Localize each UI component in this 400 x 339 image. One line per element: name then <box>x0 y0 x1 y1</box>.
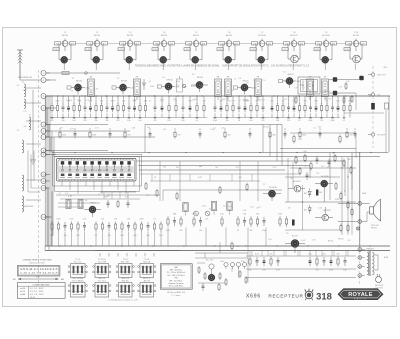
svg-text:330: 330 <box>246 83 249 85</box>
svg-text:BF234: BF234 <box>264 126 269 128</box>
svg-text:470: 470 <box>69 100 72 102</box>
svg-text:150: 150 <box>168 89 171 91</box>
svg-text:330: 330 <box>258 99 261 101</box>
svg-text:47: 47 <box>59 193 61 195</box>
svg-text:100: 100 <box>215 167 218 169</box>
svg-text:33: 33 <box>327 167 329 169</box>
svg-text:0,1: 0,1 <box>213 128 216 130</box>
svg-text:150: 150 <box>163 129 166 131</box>
svg-text:100: 100 <box>253 80 256 82</box>
svg-text:33: 33 <box>71 91 73 93</box>
svg-text:150: 150 <box>147 127 150 129</box>
svg-text:0,047: 0,047 <box>222 99 227 101</box>
svg-text:470: 470 <box>284 99 287 101</box>
svg-text:100: 100 <box>324 91 327 93</box>
svg-text:0,047: 0,047 <box>182 86 187 88</box>
svg-text:0,1: 0,1 <box>258 206 261 208</box>
svg-text:BF234: BF234 <box>338 238 343 240</box>
svg-text:47: 47 <box>239 100 241 102</box>
svg-text:330: 330 <box>199 166 202 168</box>
svg-text:150: 150 <box>223 206 226 208</box>
svg-text:150: 150 <box>288 207 291 209</box>
svg-text:330: 330 <box>104 196 107 198</box>
svg-text:BF234: BF234 <box>191 86 196 88</box>
svg-text:330: 330 <box>163 167 166 169</box>
svg-text:150: 150 <box>347 240 350 242</box>
svg-text:47: 47 <box>303 88 305 90</box>
svg-text:0,047: 0,047 <box>72 87 77 89</box>
svg-text:330: 330 <box>318 126 321 128</box>
svg-text:0,1: 0,1 <box>225 88 228 90</box>
svg-text:47: 47 <box>98 194 100 196</box>
svg-text:47: 47 <box>234 78 236 80</box>
svg-text:0,1: 0,1 <box>313 128 316 130</box>
svg-text:100: 100 <box>146 195 149 197</box>
svg-text:0,047: 0,047 <box>301 240 306 242</box>
svg-text:0,1: 0,1 <box>154 195 157 197</box>
svg-text:BF234: BF234 <box>328 240 333 242</box>
svg-text:47: 47 <box>149 100 151 102</box>
svg-text:0,1: 0,1 <box>126 88 129 90</box>
svg-text:0,047: 0,047 <box>202 206 207 208</box>
svg-text:BF234: BF234 <box>325 99 330 101</box>
svg-text:150: 150 <box>262 80 265 82</box>
svg-text:47: 47 <box>70 195 72 197</box>
